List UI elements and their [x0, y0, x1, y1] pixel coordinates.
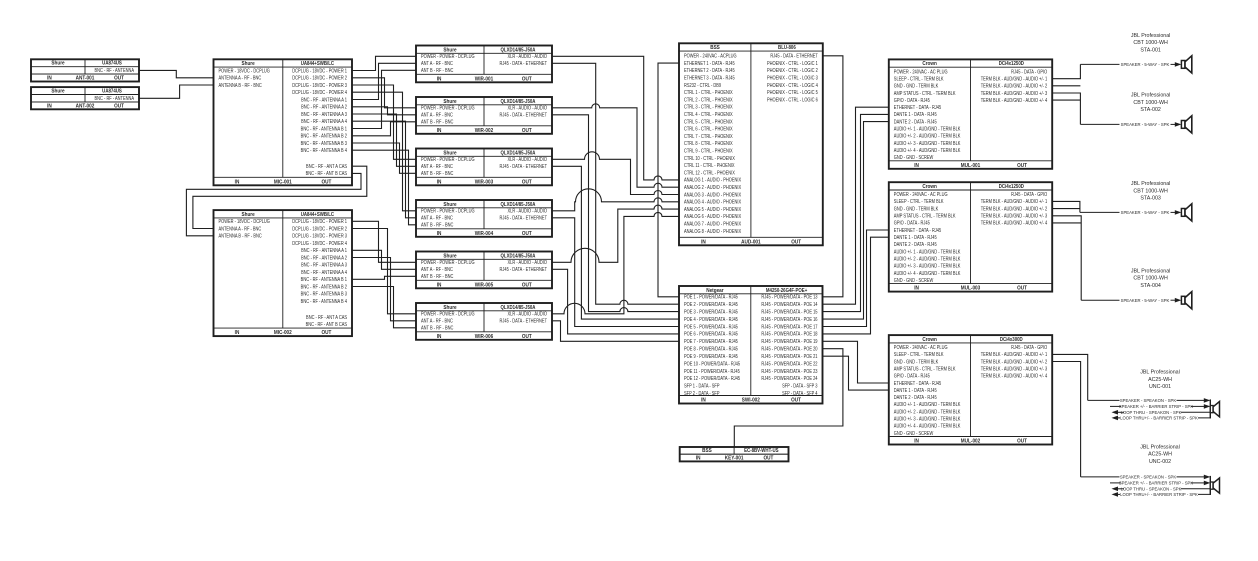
- svg-text:M4250-26G4F-POE+: M4250-26G4F-POE+: [766, 287, 808, 293]
- speaker icon UNC-002: [1210, 476, 1219, 495]
- svg-text:CBT 1000-WH: CBT 1000-WH: [1133, 40, 1168, 46]
- svg-text:POWER - POWER - DCPLUG: POWER - POWER - DCPLUG: [421, 311, 475, 317]
- svg-text:SPEAKER +/- - BARRIER STRIP -: SPEAKER +/- - BARRIER STRIP - SPK: [1119, 404, 1193, 409]
- svg-text:DCPLUG - 18VDC - POWER 1: DCPLUG - 18VDC - POWER 1: [292, 219, 347, 225]
- svg-text:OUT: OUT: [522, 231, 532, 237]
- svg-text:ANALOG 4 - AUDIO - PHOENIX: ANALOG 4 - AUDIO - PHOENIX: [684, 199, 741, 205]
- svg-text:QLXD14/85-J50A: QLXD14/85-J50A: [501, 253, 536, 259]
- svg-text:AUDIO +/- 1 - AUD/GND - TERM B: AUDIO +/- 1 - AUD/GND - TERM BLK: [894, 126, 961, 132]
- wire SPEAKER SPEAKON into UNC-002: [1081, 474, 1211, 479]
- svg-text:Shure: Shure: [241, 61, 254, 67]
- svg-text:ETHERNET - DATA - RJ45: ETHERNET - DATA - RJ45: [894, 105, 942, 111]
- svg-text:BNC - RF - ANT A CAS: BNC - RF - ANT A CAS: [306, 314, 347, 320]
- svg-text:IN: IN: [47, 75, 52, 81]
- svg-text:UA874US: UA874US: [102, 60, 122, 66]
- wire SWI-002 POE 15 to MUL-001 DANTE 1: [823, 114, 889, 311]
- svg-text:XLR - AUDIO - AUDIO: XLR - AUDIO - AUDIO: [508, 311, 548, 317]
- speaker label STA-001: [1131, 33, 1171, 54]
- svg-text:POWER - POWER - DCPLUG: POWER - POWER - DCPLUG: [421, 208, 475, 214]
- svg-text:AUDIO +/- 1 - AUD/GND - TERM B: AUDIO +/- 1 - AUD/GND - TERM BLK: [894, 402, 961, 408]
- svg-text:PHOENIX - CTRL - LOGIC 6: PHOENIX - CTRL - LOGIC 6: [767, 97, 818, 103]
- svg-text:DCi4x1250D: DCi4x1250D: [999, 61, 1025, 67]
- wire SWI-002 POE 16 to MUL-001 DANTE 2: [823, 122, 889, 320]
- svg-text:GND - GND - TERM BLK: GND - GND - TERM BLK: [894, 359, 938, 365]
- wire SWI-002 POE 20 to KEY-001: [734, 349, 843, 447]
- svg-text:ANT-001: ANT-001: [76, 75, 95, 81]
- svg-text:JBL Professional: JBL Professional: [1140, 370, 1180, 376]
- speaker label STA-004: [1131, 268, 1171, 289]
- wire MUL-002 AUDIO 1 to UNC-001: [1052, 354, 1088, 400]
- svg-text:JBL Professional: JBL Professional: [1131, 33, 1171, 39]
- svg-text:JBL Professional: JBL Professional: [1131, 181, 1171, 187]
- svg-text:OUT: OUT: [522, 76, 532, 82]
- svg-text:JBL Professional: JBL Professional: [1140, 444, 1180, 450]
- svg-text:DCPLUG - 18VDC - POWER 2: DCPLUG - 18VDC - POWER 2: [292, 226, 347, 232]
- svg-text:WIR-003: WIR-003: [475, 179, 494, 185]
- svg-text:RJ45 - POWER/DATA - POE 14: RJ45 - POWER/DATA - POE 14: [761, 302, 817, 308]
- svg-text:AUDIO +/- 2 - AUD/GND - TERM B: AUDIO +/- 2 - AUD/GND - TERM BLK: [894, 256, 961, 262]
- svg-text:Netgear: Netgear: [706, 288, 723, 294]
- svg-text:CTRL 11 - CTRL - PHOENIX: CTRL 11 - CTRL - PHOENIX: [684, 163, 735, 169]
- network switch SWI-002: [679, 286, 823, 404]
- wire WIR-001 XLR audio to AUD-001 ANALOG 1: [552, 56, 679, 180]
- svg-text:OUT: OUT: [791, 397, 801, 403]
- svg-text:TERM BLK - AUD/GND - AUDIO +/-: TERM BLK - AUD/GND - AUDIO +/- 4: [981, 373, 1048, 379]
- wire MIC-002 ANTENNA B 1 to WIR-005: [352, 276, 416, 279]
- svg-text:UA874US: UA874US: [102, 88, 122, 94]
- svg-text:ANT B - RF - BNC: ANT B - RF - BNC: [421, 222, 454, 228]
- svg-text:WIR-002: WIR-002: [475, 128, 494, 134]
- wire MIC-001 ANT A CAS to MIC-002 ANTENNA A: [193, 166, 367, 228]
- svg-text:SFP - DATA - SFP 3: SFP - DATA - SFP 3: [782, 383, 818, 389]
- speaker label STA-003: [1131, 181, 1171, 202]
- svg-text:ANT A - RF - BNC: ANT A - RF - BNC: [421, 215, 454, 221]
- svg-text:BNC - RF - ANT B CAS: BNC - RF - ANT B CAS: [306, 322, 347, 328]
- svg-text:MUL-002: MUL-002: [961, 438, 981, 444]
- antenna box ANT-002: [31, 87, 139, 109]
- svg-text:POWER - POWER - DCPLUG: POWER - POWER - DCPLUG: [421, 54, 475, 60]
- svg-text:RJ45 - DATA - ETHERNET: RJ45 - DATA - ETHERNET: [500, 215, 548, 221]
- svg-text:CTRL 1 - CTRL - PHOENIX: CTRL 1 - CTRL - PHOENIX: [684, 90, 733, 96]
- svg-text:WIR-004: WIR-004: [475, 231, 494, 237]
- wire MIC-001 ANTENNA B 4 to WIR-004: [352, 150, 416, 225]
- wire MIC-001 ANTENNA A 4 to WIR-004: [352, 121, 416, 218]
- wire MIC-002 ANTENNA A 2 to WIR-006: [352, 258, 416, 321]
- svg-text:DANTE 1 - DATA - RJ45: DANTE 1 - DATA - RJ45: [894, 387, 937, 393]
- svg-text:ANALOG 8 - AUDIO - PHOENIX: ANALOG 8 - AUDIO - PHOENIX: [684, 228, 741, 234]
- svg-text:SLEEP - CTRL - TERM BLK: SLEEP - CTRL - TERM BLK: [894, 199, 944, 205]
- wireless receiver WIR-001: [416, 46, 552, 83]
- svg-text:ANT B - RF - BNC: ANT B - RF - BNC: [421, 119, 454, 125]
- svg-text:RJ45 - DATA - ETHERNET: RJ45 - DATA - ETHERNET: [500, 318, 548, 324]
- wire LOOP THRU SPEAKON out of UNC-002: [1112, 486, 1211, 491]
- wire MIC-001 POWER 3 to WIR-003: [352, 85, 416, 159]
- svg-text:BNC - RF - ANTENNA: BNC - RF - ANTENNA: [95, 96, 135, 102]
- wire MUL-003 AUDIO 1 to STA-003: [1052, 201, 1080, 212]
- svg-text:IN: IN: [437, 179, 442, 185]
- svg-text:STA-003: STA-003: [1140, 196, 1161, 202]
- svg-text:CBT 1000-WH: CBT 1000-WH: [1133, 276, 1168, 282]
- wire MUL-003 AUDIO 2 join: [1052, 208, 1080, 210]
- svg-text:RJ45 - POWER/DATA - POE 21: RJ45 - POWER/DATA - POE 21: [761, 354, 817, 360]
- svg-text:TERM BLK - AUD/GND - AUDIO +/-: TERM BLK - AUD/GND - AUDIO +/- 4: [981, 97, 1048, 103]
- svg-text:RJ45 - DATA - ETHERNET: RJ45 - DATA - ETHERNET: [500, 61, 548, 67]
- wire WIR-006 RJ45 data to SWI-002 POE 7: [552, 321, 679, 342]
- svg-text:BNC - RF - ANT B CAS: BNC - RF - ANT B CAS: [306, 171, 347, 177]
- svg-text:IN: IN: [914, 163, 919, 169]
- svg-text:DCPLUG - 18VDC - POWER 3: DCPLUG - 18VDC - POWER 3: [292, 82, 347, 88]
- svg-text:AUDIO +/- 2 - AUD/GND - TERM B: AUDIO +/- 2 - AUD/GND - TERM BLK: [894, 133, 961, 139]
- svg-text:ANALOG 5 - AUDIO - PHOENIX: ANALOG 5 - AUDIO - PHOENIX: [684, 206, 741, 212]
- power amplifier MUL-002: [889, 335, 1052, 445]
- svg-text:RJ45 - DATA - GPIO: RJ45 - DATA - GPIO: [1011, 69, 1047, 75]
- svg-text:TERM BLK - AUD/GND - AUDIO +/-: TERM BLK - AUD/GND - AUDIO +/- 3: [981, 366, 1048, 372]
- wire WIR-003 RJ45 data to SWI-002 POE 4: [552, 166, 679, 319]
- svg-text:MIC-002: MIC-002: [274, 330, 292, 336]
- svg-text:ANALOG 3 - AUDIO - PHOENIX: ANALOG 3 - AUDIO - PHOENIX: [684, 192, 741, 198]
- svg-text:POWER - 240VAC - AC PLUG: POWER - 240VAC - AC PLUG: [894, 192, 948, 198]
- svg-text:ANT B - RF - BNC: ANT B - RF - BNC: [421, 68, 454, 74]
- svg-text:MIC-001: MIC-001: [274, 179, 292, 185]
- svg-text:CTRL 9 - CTRL - PHOENIX: CTRL 9 - CTRL - PHOENIX: [684, 148, 733, 154]
- svg-text:BNC - RF - ANTENNA A 3: BNC - RF - ANTENNA A 3: [301, 262, 347, 268]
- svg-text:RJ45 - POWER/DATA - POE 19: RJ45 - POWER/DATA - POE 19: [761, 339, 817, 345]
- svg-text:GND - GND - SCREW: GND - GND - SCREW: [894, 155, 934, 161]
- wire MIC-002 POWER 2 to WIR-006: [352, 229, 416, 314]
- svg-text:JBL Professional: JBL Professional: [1131, 268, 1171, 274]
- svg-text:CTRL 7 - CTRL - PHOENIX: CTRL 7 - CTRL - PHOENIX: [684, 133, 733, 139]
- svg-text:BNC - RF - ANT A CAS: BNC - RF - ANT A CAS: [306, 164, 347, 170]
- svg-text:AC25-WH: AC25-WH: [1148, 452, 1172, 458]
- wire MIC-002 POWER 1 to WIR-005: [352, 221, 416, 262]
- svg-text:ETHERNET 2 - DATA - RJ45: ETHERNET 2 - DATA - RJ45: [684, 68, 735, 74]
- svg-text:STA-001: STA-001: [1140, 47, 1161, 53]
- svg-text:POE 6 - POWER/DATA - RJ45: POE 6 - POWER/DATA - RJ45: [684, 331, 738, 337]
- svg-text:CTRL 10 - CTRL - PHOENIX: CTRL 10 - CTRL - PHOENIX: [684, 155, 735, 161]
- svg-text:TERM BLK - AUD/GND - AUDIO +/-: TERM BLK - AUD/GND - AUDIO +/- 2: [981, 83, 1048, 89]
- svg-text:PHOENIX - CTRL - LOGIC 5: PHOENIX - CTRL - LOGIC 5: [767, 90, 818, 96]
- svg-text:SFP 1 - DATA - SFP: SFP 1 - DATA - SFP: [684, 383, 720, 389]
- svg-text:BNC - RF - ANTENNA B 1: BNC - RF - ANTENNA B 1: [301, 277, 348, 283]
- svg-text:SPEAKER - 5-WAY - SPK: SPEAKER - 5-WAY - SPK: [1121, 122, 1170, 127]
- svg-text:OUT: OUT: [114, 103, 124, 109]
- wire MIC-001 ANTENNA B 1 to WIR-001: [352, 70, 416, 128]
- svg-text:CTRL 4 - CTRL - PHOENIX: CTRL 4 - CTRL - PHOENIX: [684, 112, 733, 118]
- wire LOOP THRU BARRIER STRIP out of UNC-002: [1112, 489, 1211, 497]
- wire MIC-002 ANTENNA A 1 to WIR-005: [352, 250, 416, 269]
- svg-text:POWER - 240VAC - AC PLUG: POWER - 240VAC - AC PLUG: [894, 345, 948, 351]
- svg-text:POWER - 240VAC - ACPLUG: POWER - 240VAC - ACPLUG: [684, 53, 737, 59]
- svg-text:ETHERNET - DATA - RJ45: ETHERNET - DATA - RJ45: [894, 227, 942, 233]
- svg-text:DCPLUG - 18VDC - POWER 1: DCPLUG - 18VDC - POWER 1: [292, 68, 347, 74]
- svg-text:IN: IN: [914, 438, 919, 444]
- svg-text:GND - GND - SCREW: GND - GND - SCREW: [894, 277, 934, 283]
- svg-text:CTRL 2 - CTRL - PHOENIX: CTRL 2 - CTRL - PHOENIX: [684, 97, 733, 103]
- wire SPEAKER 5-WAY to STA-004: [1081, 298, 1181, 303]
- svg-text:DANTE 2 - DATA - RJ45: DANTE 2 - DATA - RJ45: [894, 242, 937, 248]
- svg-text:LOOP THRU+/- - BARRIER STRIP -: LOOP THRU+/- - BARRIER STRIP - SPK: [1120, 415, 1198, 420]
- svg-text:POE 8 - POWER/DATA - RJ45: POE 8 - POWER/DATA - RJ45: [684, 346, 738, 352]
- svg-text:POE 5 - POWER/DATA - RJ45: POE 5 - POWER/DATA - RJ45: [684, 324, 738, 330]
- wire SWI-002 POE 14 to MUL-001 ETHERNET: [823, 107, 889, 304]
- svg-text:POE 1 - POWER/DATA - RJ45: POE 1 - POWER/DATA - RJ45: [684, 294, 738, 300]
- svg-text:LOOP THRU+/- - BARRIER STRIP -: LOOP THRU+/- - BARRIER STRIP - SPK: [1120, 492, 1198, 497]
- wire MIC-001 ANTENNA B 2 to WIR-002: [352, 122, 416, 136]
- svg-text:ANTENNA B - RF - BNC: ANTENNA B - RF - BNC: [219, 82, 263, 88]
- svg-text:BNC - RF - ANTENNA B 4: BNC - RF - ANTENNA B 4: [301, 298, 348, 304]
- wire ANT-002 to MIC-001 ANTENNA B: [139, 85, 214, 98]
- svg-text:DANTE 2 - DATA - RJ45: DANTE 2 - DATA - RJ45: [894, 119, 937, 125]
- svg-text:SFP - DATA - SFP 4: SFP - DATA - SFP 4: [782, 391, 818, 397]
- speaker icon STA-004: [1181, 292, 1191, 309]
- wire WIR-004 RJ45 data to SWI-002 POE 5: [552, 218, 679, 327]
- wire LOOP THRU BARRIER STRIP out of UNC-001: [1112, 412, 1211, 420]
- svg-text:RJ45 - DATA - ETHERNET: RJ45 - DATA - ETHERNET: [770, 53, 818, 59]
- svg-text:ANT A - RF - BNC: ANT A - RF - BNC: [421, 164, 454, 170]
- wire MIC-001 POWER 2 to WIR-002: [352, 78, 416, 108]
- svg-text:POE 4 - POWER/DATA - RJ45: POE 4 - POWER/DATA - RJ45: [684, 316, 738, 322]
- svg-text:RJ45 - DATA - ETHERNET: RJ45 - DATA - ETHERNET: [500, 267, 548, 273]
- svg-text:POWER - POWER - DCPLUG: POWER - POWER - DCPLUG: [421, 260, 475, 266]
- svg-text:BSS: BSS: [702, 448, 712, 454]
- antenna distributor MIC-001: [214, 59, 353, 185]
- wire MIC-001 POWER 1 to WIR-001: [352, 56, 416, 70]
- svg-text:RJ45 - POWER/DATA - POE 22: RJ45 - POWER/DATA - POE 22: [761, 361, 817, 367]
- svg-text:POE 11 - POWER/DATA - RJ45: POE 11 - POWER/DATA - RJ45: [684, 368, 740, 374]
- wire WIR-002 XLR audio to AUD-001 ANALOG 2: [552, 104, 679, 187]
- svg-text:UNC-001: UNC-001: [1149, 384, 1171, 390]
- svg-text:AMP STATUS - CTRL - TERM BLK: AMP STATUS - CTRL - TERM BLK: [894, 366, 956, 372]
- svg-text:IN: IN: [696, 455, 701, 461]
- speaker label UNC-002: [1140, 444, 1180, 465]
- svg-text:SPEAKER - SPEAKON - SPK: SPEAKER - SPEAKON - SPK: [1120, 398, 1176, 403]
- svg-text:POE 7 - POWER/DATA - RJ45: POE 7 - POWER/DATA - RJ45: [684, 339, 738, 345]
- svg-text:WIR-006: WIR-006: [475, 334, 494, 340]
- svg-text:OUT: OUT: [1017, 438, 1027, 444]
- svg-text:ANT B - RF - BNC: ANT B - RF - BNC: [421, 325, 454, 331]
- svg-text:ANT A - RF - BNC: ANT A - RF - BNC: [421, 318, 454, 324]
- svg-text:ETHERNET 3 - DATA - RJ45: ETHERNET 3 - DATA - RJ45: [684, 75, 735, 81]
- svg-text:RJ45 - DATA - ETHERNET: RJ45 - DATA - ETHERNET: [500, 112, 548, 118]
- svg-text:QLXD14/85-J50A: QLXD14/85-J50A: [501, 47, 536, 53]
- svg-text:LOOP THRU - SPEAKON - SPK: LOOP THRU - SPEAKON - SPK: [1121, 410, 1182, 415]
- svg-text:DCPLUG - 18VDC - POWER 2: DCPLUG - 18VDC - POWER 2: [292, 75, 347, 81]
- svg-text:OUT: OUT: [321, 330, 331, 336]
- svg-text:STA-004: STA-004: [1140, 283, 1161, 289]
- svg-text:TERM BLK - AUD/GND - AUDIO +/-: TERM BLK - AUD/GND - AUDIO +/- 1: [981, 352, 1048, 358]
- svg-text:SWI-002: SWI-002: [742, 397, 760, 403]
- wire WIR-002 RJ45 data to SWI-002 POE 3: [552, 115, 679, 312]
- svg-text:SLEEP - CTRL - TERM BLK: SLEEP - CTRL - TERM BLK: [894, 352, 944, 358]
- svg-text:JBL Professional: JBL Professional: [1131, 93, 1171, 99]
- svg-text:DCi4x1250D: DCi4x1250D: [999, 184, 1025, 190]
- svg-text:POE 10 - POWER/DATA - RJ45: POE 10 - POWER/DATA - RJ45: [684, 361, 740, 367]
- wire MIC-001 ANTENNA A 1 to WIR-001: [352, 63, 416, 99]
- svg-text:RJ45 - POWER/DATA - POE 23: RJ45 - POWER/DATA - POE 23: [761, 368, 817, 374]
- svg-text:AUDIO +/- 2 - AUD/GND - TERM B: AUDIO +/- 2 - AUD/GND - TERM BLK: [894, 409, 961, 415]
- svg-text:BNC - RF - ANTENNA: BNC - RF - ANTENNA: [95, 68, 135, 74]
- svg-text:GPIO - DATA - RJ45: GPIO - DATA - RJ45: [894, 220, 930, 226]
- svg-text:Shure: Shure: [443, 305, 456, 311]
- svg-text:ANALOG 2 - AUDIO - PHOENIX: ANALOG 2 - AUDIO - PHOENIX: [684, 185, 741, 191]
- svg-text:DCPLUG - 18VDC - POWER 3: DCPLUG - 18VDC - POWER 3: [292, 233, 347, 239]
- svg-text:POWER - POWER - DCPLUG: POWER - POWER - DCPLUG: [421, 157, 475, 163]
- svg-text:POWER - 18VDC - DCPLUG: POWER - 18VDC - DCPLUG: [219, 68, 271, 74]
- svg-text:GND - GND - SCREW: GND - GND - SCREW: [894, 430, 934, 436]
- svg-text:BNC - RF - ANTENNA B 2: BNC - RF - ANTENNA B 2: [301, 133, 348, 139]
- svg-text:POE 3 - POWER/DATA - RJ45: POE 3 - POWER/DATA - RJ45: [684, 309, 738, 315]
- svg-text:POE 12 - POWER/DATA - RJ45: POE 12 - POWER/DATA - RJ45: [684, 376, 740, 382]
- wire MUL-002 AUDIO 2 to UNC-002: [1052, 362, 1080, 477]
- antenna box ANT-001: [31, 59, 139, 81]
- svg-text:OUT: OUT: [522, 128, 532, 134]
- svg-text:QLXD14/85-J50A: QLXD14/85-J50A: [501, 150, 536, 156]
- svg-text:BNC - RF - ANTENNA B 1: BNC - RF - ANTENNA B 1: [301, 126, 348, 132]
- wireless receiver WIR-002: [416, 97, 552, 134]
- svg-text:CTRL 6 - CTRL - PHOENIX: CTRL 6 - CTRL - PHOENIX: [684, 126, 733, 132]
- svg-text:SPEAKER - SPEAKON - SPK: SPEAKER - SPEAKON - SPK: [1120, 474, 1176, 479]
- wire SPEAKER 5-WAY to STA-001: [1080, 62, 1181, 67]
- wireless receiver WIR-006: [416, 303, 552, 340]
- wire MIC-001 ANTENNA B 3 to WIR-003: [352, 143, 416, 173]
- wire SPEAKER BARRIER STRIP into UNC-001: [1110, 404, 1210, 409]
- svg-text:RJ45 - POWER/DATA - POE 17: RJ45 - POWER/DATA - POE 17: [761, 324, 817, 330]
- wire WIR-004 XLR audio to AUD-001 ANALOG 4: [552, 189, 679, 211]
- wireless receiver WIR-003: [416, 149, 552, 186]
- svg-text:BNC - RF - ANTENNA A 2: BNC - RF - ANTENNA A 2: [301, 104, 347, 110]
- svg-text:CBT 1000-WH: CBT 1000-WH: [1133, 100, 1168, 106]
- svg-text:RJ45 - DATA - ETHERNET: RJ45 - DATA - ETHERNET: [500, 164, 548, 170]
- antenna distributor MIC-002: [214, 210, 353, 336]
- svg-text:Shure: Shure: [443, 150, 456, 156]
- svg-text:BNC - RF - ANTENNA A 4: BNC - RF - ANTENNA A 4: [301, 269, 347, 275]
- svg-text:RJ45 - POWER/DATA - POE 16: RJ45 - POWER/DATA - POE 16: [761, 316, 817, 322]
- wire WIR-005 XLR audio to AUD-001 ANALOG 5: [552, 205, 679, 262]
- svg-text:IN: IN: [437, 282, 442, 288]
- wireless receiver WIR-005: [416, 252, 552, 289]
- svg-text:SPEAKER - 5-WAY - SPK: SPEAKER - 5-WAY - SPK: [1121, 62, 1170, 67]
- svg-text:AUDIO +/- 4 - AUD/GND - TERM B: AUDIO +/- 4 - AUD/GND - TERM BLK: [894, 148, 961, 154]
- wire MUL-001 AUDIO 2 join: [1052, 85, 1080, 87]
- svg-text:PHOENIX - CTRL - LOGIC 2: PHOENIX - CTRL - LOGIC 2: [767, 68, 818, 74]
- wire MIC-001 ANTENNA A 2 to WIR-002: [352, 107, 416, 115]
- svg-text:STA-002: STA-002: [1140, 107, 1161, 113]
- svg-text:BLU-806: BLU-806: [778, 45, 796, 51]
- svg-text:CTRL 3 - CTRL - PHOENIX: CTRL 3 - CTRL - PHOENIX: [684, 104, 733, 110]
- svg-text:TERM BLK - AUD/GND - AUDIO +/-: TERM BLK - AUD/GND - AUDIO +/- 1: [981, 76, 1048, 82]
- svg-text:BNC - RF - ANTENNA B 3: BNC - RF - ANTENNA B 3: [301, 291, 348, 297]
- svg-text:PHOENIX - CTRL - LOGIC 1: PHOENIX - CTRL - LOGIC 1: [767, 60, 818, 66]
- svg-text:AUD-001: AUD-001: [741, 239, 761, 245]
- svg-text:BNC - RF - ANTENNA B 3: BNC - RF - ANTENNA B 3: [301, 140, 348, 146]
- wire SWI-002 POE 18 to MUL-003 DANTE 1: [823, 237, 889, 334]
- svg-text:DANTE 1 - DATA - RJ45: DANTE 1 - DATA - RJ45: [894, 235, 937, 241]
- svg-text:UNC-002: UNC-002: [1149, 459, 1171, 465]
- svg-text:Shure: Shure: [443, 253, 456, 259]
- svg-text:TERM BLK - AUD/GND - AUDIO +/-: TERM BLK - AUD/GND - AUDIO +/- 1: [981, 199, 1048, 205]
- svg-text:BNC - RF - ANTENNA A 1: BNC - RF - ANTENNA A 1: [301, 248, 347, 254]
- svg-text:SLEEP - CTRL - TERM BLK: SLEEP - CTRL - TERM BLK: [894, 76, 944, 82]
- svg-text:BSS: BSS: [710, 45, 720, 51]
- svg-text:POE 2 - POWER/DATA - RJ45: POE 2 - POWER/DATA - RJ45: [684, 302, 738, 308]
- svg-text:ANALOG 6 - AUDIO - PHOENIX: ANALOG 6 - AUDIO - PHOENIX: [684, 214, 741, 220]
- wall controller KEY-001: [680, 447, 789, 462]
- svg-text:CTRL 8 - CTRL - PHOENIX: CTRL 8 - CTRL - PHOENIX: [684, 141, 733, 147]
- svg-text:IN: IN: [47, 103, 52, 109]
- wire SWI-002 POE 19 to MUL-002 ETHERNET: [823, 341, 889, 383]
- svg-text:TERM BLK - AUD/GND - AUDIO +/-: TERM BLK - AUD/GND - AUDIO +/- 3: [981, 90, 1048, 96]
- svg-text:QLXD14/85-J50A: QLXD14/85-J50A: [501, 304, 536, 310]
- svg-text:ANTENNA A - RF - BNC: ANTENNA A - RF - BNC: [219, 75, 262, 81]
- svg-text:ANT B - RF - BNC: ANT B - RF - BNC: [421, 274, 454, 280]
- wire SPEAKER 5-WAY to STA-002: [1080, 122, 1181, 127]
- svg-text:ANT A - RF - BNC: ANT A - RF - BNC: [421, 267, 454, 273]
- svg-text:XLR - AUDIO - AUDIO: XLR - AUDIO - AUDIO: [508, 260, 548, 266]
- wire WIR-001 RJ45 data to SWI-002 POE 2: [552, 63, 679, 304]
- svg-text:AUDIO +/- 1 - AUD/GND - TERM B: AUDIO +/- 1 - AUD/GND - TERM BLK: [894, 249, 961, 255]
- svg-text:CTRL 5 - CTRL - PHOENIX: CTRL 5 - CTRL - PHOENIX: [684, 119, 733, 125]
- wire MUL-003 AUDIO 3 to STA-004: [1052, 216, 1081, 300]
- wire AUD-001 ETHERNET 1 to SWI-002 POE 1: [658, 63, 679, 297]
- wire ANT-001 to MIC-001 ANTENNA A: [139, 70, 214, 77]
- wire SPEAKER BARRIER STRIP into UNC-002: [1110, 480, 1210, 485]
- svg-text:IN: IN: [235, 179, 240, 185]
- svg-text:GPIO - DATA - RJ45: GPIO - DATA - RJ45: [894, 373, 930, 379]
- svg-text:IN: IN: [701, 397, 706, 403]
- svg-text:POWER - 18VDC - DCPLUG: POWER - 18VDC - DCPLUG: [219, 219, 271, 225]
- svg-text:GND - GND - TERM BLK: GND - GND - TERM BLK: [894, 206, 938, 212]
- speaker label UNC-001: [1140, 370, 1180, 391]
- svg-text:RJ45 - DATA - GPIO: RJ45 - DATA - GPIO: [1011, 192, 1047, 198]
- speaker icon STA-001: [1181, 56, 1191, 73]
- svg-text:OUT: OUT: [522, 334, 532, 340]
- svg-text:DCi4x300D: DCi4x300D: [1000, 337, 1023, 343]
- svg-text:Shure: Shure: [443, 202, 456, 208]
- wire SPEAKER SPEAKON into UNC-001: [1088, 398, 1211, 403]
- wire MIC-002 ANTENNA B 2 to WIR-006: [352, 287, 416, 328]
- power amplifier MUL-001: [889, 59, 1052, 169]
- wire MUL-001 AUDIO 3 to STA-002: [1052, 93, 1080, 124]
- svg-text:MUL-003: MUL-003: [961, 285, 981, 291]
- svg-text:QLXD14/85-J50A: QLXD14/85-J50A: [501, 201, 536, 207]
- speaker icon STA-003: [1181, 204, 1191, 221]
- svg-text:IN: IN: [235, 330, 240, 336]
- svg-text:UA844+SWB/LC: UA844+SWB/LC: [301, 61, 335, 67]
- svg-text:RJ45 - DATA - GPIO: RJ45 - DATA - GPIO: [1011, 345, 1047, 351]
- svg-text:POWER - POWER - DCPLUG: POWER - POWER - DCPLUG: [421, 105, 475, 111]
- svg-text:GND - GND - TERM BLK: GND - GND - TERM BLK: [894, 83, 938, 89]
- svg-text:CBT 1000-WH: CBT 1000-WH: [1133, 188, 1168, 194]
- svg-text:RJ45 - POWER/DATA - POE 15: RJ45 - POWER/DATA - POE 15: [761, 309, 817, 315]
- svg-text:TERM BLK - AUD/GND - AUDIO +/-: TERM BLK - AUD/GND - AUDIO +/- 2: [981, 359, 1048, 365]
- svg-text:SPEAKER +/- - BARRIER STRIP -: SPEAKER +/- - BARRIER STRIP - SPK: [1119, 480, 1193, 485]
- svg-text:AUDIO +/- 3 - AUD/GND - TERM B: AUDIO +/- 3 - AUD/GND - TERM BLK: [894, 140, 961, 146]
- svg-text:OUT: OUT: [321, 179, 331, 185]
- svg-text:SFP 2 - DATA - SFP: SFP 2 - DATA - SFP: [684, 391, 720, 397]
- svg-text:CTRL 12 - CTRL - PHOENIX: CTRL 12 - CTRL - PHOENIX: [684, 170, 735, 176]
- svg-text:Crown: Crown: [922, 61, 937, 67]
- svg-text:BNC - RF - ANTENNA A 2: BNC - RF - ANTENNA A 2: [301, 255, 347, 261]
- svg-text:IN: IN: [437, 334, 442, 340]
- wire AUD-001 RJ45 ETHERNET out to SWI-002 POE 13: [823, 56, 843, 297]
- svg-text:PHOENIX - CTRL - LOGIC 3: PHOENIX - CTRL - LOGIC 3: [767, 75, 818, 81]
- svg-text:OUT: OUT: [791, 239, 801, 245]
- svg-text:RJ45 - POWER/DATA - POE 13: RJ45 - POWER/DATA - POE 13: [761, 294, 817, 300]
- wire MUL-001 AUDIO 1 to STA-001: [1052, 64, 1080, 78]
- svg-text:IN: IN: [701, 239, 706, 245]
- svg-text:BNC - RF - ANTENNA A 3: BNC - RF - ANTENNA A 3: [301, 111, 347, 117]
- svg-text:ANTENNA B - RF - BNC: ANTENNA B - RF - BNC: [219, 233, 263, 239]
